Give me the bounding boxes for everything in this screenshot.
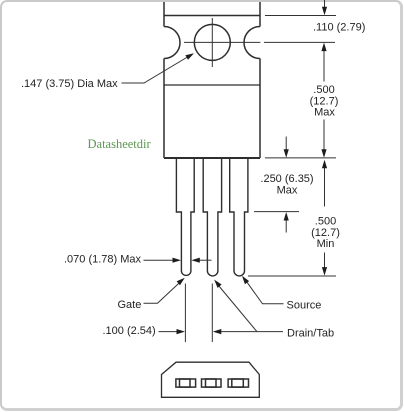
wire dim .250 up arrow tail (285, 218, 287, 233)
bottom view pin 1 pad (176, 379, 249, 387)
TO-220 package body outline (164, 2, 260, 158)
wire gate leader (144, 282, 180, 303)
svg-text:.100 (2.54): .100 (2.54) (103, 325, 156, 337)
wire extension line body bottom right (265, 157, 336, 159)
wire extension line pin shoulder (254, 211, 299, 213)
arrowhead dim .500max up (321, 43, 326, 52)
wire hole crosshair vertical (211, 18, 213, 67)
wire dim .100 right / drain-tab horizontal (219, 331, 283, 333)
arrowhead dim .250 up (284, 212, 289, 221)
wire extension line top edge right (265, 15, 336, 17)
arrowhead dim .070 left (191, 258, 200, 263)
arrowhead dim .500min down (322, 267, 327, 276)
wire right edge (259, 2, 261, 158)
pin 3 (source lead) (230, 159, 248, 276)
wire extension line pin1 center (184, 284, 186, 343)
arrowhead dim .110 down (322, 7, 327, 16)
wire body bottom (164, 157, 260, 159)
arrowhead dia leader (185, 53, 194, 60)
svg-text:Drain/Tab: Drain/Tab (287, 328, 334, 340)
arrowhead dim .250 down (284, 149, 289, 158)
pin 2 (drain lead) (203, 159, 221, 276)
node right notch (244, 27, 260, 59)
wire source leader (246, 281, 284, 304)
bottom view pin 3 pad (228, 379, 248, 387)
wire dim .500 max line lower (323, 120, 325, 152)
wire dim .500 min line upper (324, 166, 326, 207)
arrowhead dim .500min up (322, 160, 327, 169)
arrowhead drain-tab leader (214, 280, 221, 288)
bottom view pin 2 pad (202, 379, 222, 387)
svg-text:Max: Max (277, 185, 298, 197)
node mounting hole (194, 24, 230, 60)
arrowhead dim .500max down (321, 149, 326, 158)
pin 1 (gate lead) (176, 159, 248, 276)
wire dim .500 max line upper (323, 49, 325, 82)
arrowhead dim .100 right (177, 329, 186, 334)
svg-text:.110 (2.79): .110 (2.79) (313, 22, 365, 34)
arrowhead dim .100 left (213, 329, 222, 334)
svg-text:.250 (6.35): .250 (6.35) (260, 173, 313, 185)
wire dim .250 down arrow tail (285, 137, 287, 152)
wire dim .100 left line (159, 331, 179, 333)
wire drain-tab diagonal (219, 286, 258, 332)
wire dim .110 arrow tail (324, 0, 326, 8)
svg-text:.147 (3.75) Dia Max: .147 (3.75) Dia Max (21, 78, 118, 90)
svg-text:Source: Source (287, 300, 322, 312)
svg-text:.070 (1.78) Max: .070 (1.78) Max (64, 254, 142, 266)
wire hole crosshair horizontal / centerline extension (184, 41, 335, 43)
svg-text:Max: Max (314, 107, 335, 119)
svg-text:.500: .500 (313, 84, 334, 96)
svg-text:.500: .500 (315, 216, 336, 228)
arrowhead gate leader (177, 278, 185, 285)
wire dim .500 min line lower (324, 253, 326, 270)
bottom view outline (162, 362, 260, 397)
svg-text:Datasheetdir: Datasheetdir (88, 137, 152, 151)
svg-text:Gate: Gate (118, 299, 142, 311)
wire extension line pin tips (248, 275, 336, 277)
svg-text:Min: Min (317, 238, 335, 250)
wire dim .070 left line (144, 259, 175, 261)
wire extension line pin2 center (211, 284, 213, 343)
node left notch (164, 27, 180, 59)
arrowhead dim .070 right (173, 258, 182, 263)
wire dia leader (122, 56, 191, 84)
wire left edge (163, 2, 165, 158)
wire top edge (164, 15, 260, 17)
wire dim .070 right line (198, 259, 212, 261)
wire tab-body division (164, 84, 260, 86)
arrowhead source leader (242, 276, 249, 284)
